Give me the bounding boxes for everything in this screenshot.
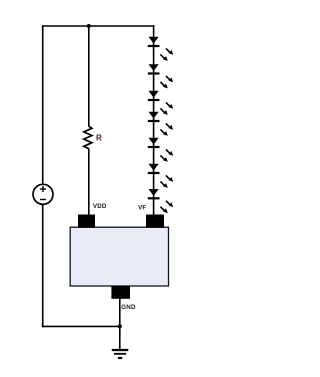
svg-text:VDD: VDD — [93, 203, 107, 210]
svg-text:GND: GND — [121, 304, 136, 311]
svg-text:VF: VF — [138, 204, 146, 211]
svg-text:R: R — [96, 133, 102, 142]
